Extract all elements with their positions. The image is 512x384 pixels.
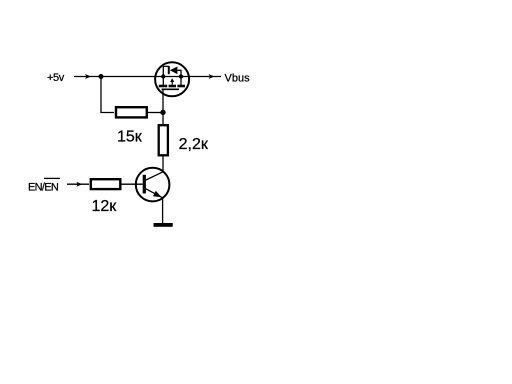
transistor emitter stroke (146, 189, 163, 198)
mosfet drain dot (179, 74, 183, 78)
svg-text:EN/EN: EN/EN (28, 182, 59, 194)
wire R2 to collector (162, 157, 164, 172)
arrow on EN wire (76, 182, 82, 187)
mosfet channel bar right (177, 85, 185, 88)
svg-text:+5v: +5v (47, 72, 65, 84)
mosfet source dot (161, 74, 165, 78)
wire junction down to R1 (101, 77, 114, 113)
wire R1 to gate node (148, 112, 163, 114)
transistor emitter arrow (153, 191, 162, 197)
mosfet substrate arrow (171, 81, 173, 85)
mosfet body diode anode wire (177, 70, 181, 76)
overline on EN (44, 177, 60, 179)
arrow to Vbus (209, 74, 215, 79)
svg-text:15к: 15к (117, 129, 143, 146)
wire emitter to ground (162, 198, 164, 223)
resistor R1 15k body (116, 107, 147, 117)
svg-text:12к: 12к (92, 198, 118, 215)
mosfet body diode wiring (163, 66, 168, 76)
mosfet channel bar middle (169, 85, 176, 88)
mosfet drain drop wire (180, 77, 182, 86)
wire through mosfet (154, 76, 190, 78)
ground (154, 223, 173, 227)
transistor base lead wire (121, 183, 143, 185)
mosfet body diode cathode bar (168, 66, 170, 74)
junction dot at +5v branch (99, 74, 104, 79)
svg-text:Vbus: Vbus (225, 73, 251, 85)
transistor Q2 body circle (136, 168, 170, 202)
mosfet body diode triangle (170, 67, 178, 75)
wire +5v rail to Vbus (74, 76, 221, 78)
mosfet Q1 body circle (155, 62, 189, 96)
mosfet source drop wire (162, 77, 164, 86)
transistor base bar (143, 175, 146, 194)
arrow on +5v wire (85, 74, 91, 79)
svg-text:2,2к: 2,2к (179, 136, 209, 153)
mosfet gate line (162, 88, 180, 90)
junction dot gate node (160, 110, 165, 115)
transistor collector stroke (146, 172, 163, 180)
wire EN input (67, 183, 89, 185)
mosfet channel bar left (159, 85, 167, 88)
resistor R2 2,2k body (159, 125, 168, 155)
mosfet gate lead wire (162, 89, 164, 124)
resistor R3 12k body (91, 179, 121, 189)
